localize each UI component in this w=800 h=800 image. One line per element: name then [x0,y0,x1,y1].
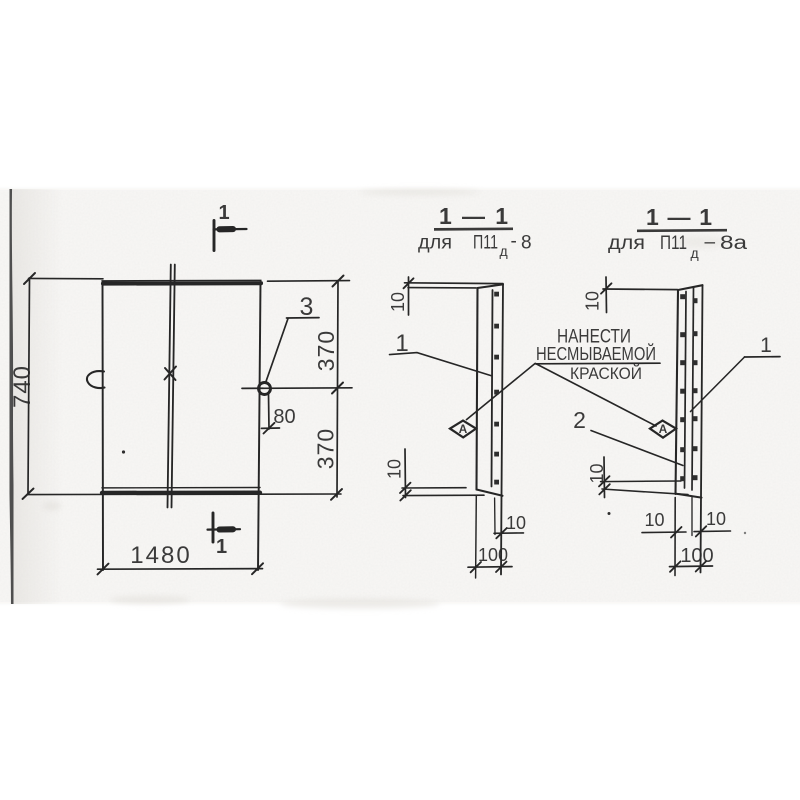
svg-text:100: 100 [478,545,508,565]
svg-text:1 — 1: 1 — 1 [439,203,508,229]
svg-text:для: для [418,233,452,254]
svg-text:д: д [691,245,699,261]
svg-text:740: 740 [9,365,36,408]
svg-text:10: 10 [388,292,408,312]
svg-text:П11: П11 [473,233,498,254]
svg-text:-: - [511,231,517,252]
svg-text:А: А [659,422,668,436]
svg-text:д: д [500,243,508,259]
svg-text:1: 1 [760,334,772,357]
svg-text:1: 1 [216,536,227,558]
svg-text:10: 10 [385,459,405,479]
svg-text:8а: 8а [720,233,748,254]
svg-text:А: А [459,422,468,436]
svg-text:2: 2 [573,407,586,433]
svg-text:10: 10 [506,513,526,533]
svg-text:370: 370 [313,330,339,371]
svg-text:370: 370 [313,428,339,469]
svg-text:1: 1 [218,202,229,224]
svg-text:8: 8 [521,233,532,254]
svg-text:КРАСКОЙ: КРАСКОЙ [570,364,642,383]
svg-text:100: 100 [680,545,713,567]
svg-text:3: 3 [300,293,314,321]
svg-text:1480: 1480 [130,542,191,569]
svg-text:1: 1 [395,330,408,357]
svg-text:10: 10 [644,510,664,530]
svg-text:НЕСМЫВАЕМОЙ: НЕСМЫВАЕМОЙ [536,343,656,364]
svg-text:10: 10 [706,509,726,529]
svg-text:для: для [608,233,645,254]
svg-text:П11: П11 [660,233,687,254]
svg-text:–: – [705,232,716,253]
svg-text:80: 80 [273,406,295,428]
svg-text:10: 10 [583,291,603,311]
svg-text:1 — 1: 1 — 1 [646,204,712,230]
svg-text:10: 10 [587,463,607,483]
